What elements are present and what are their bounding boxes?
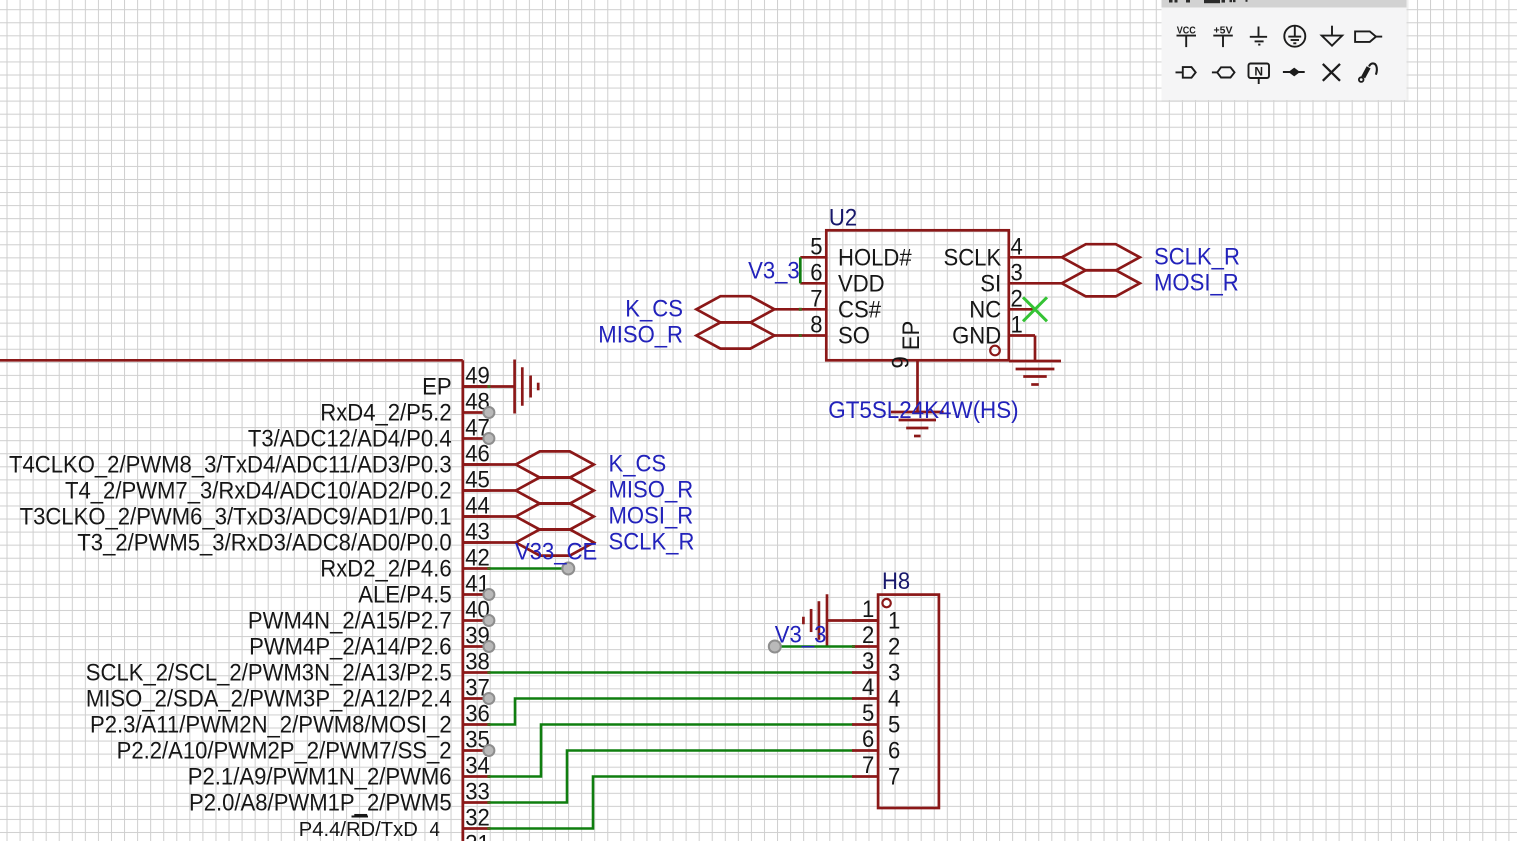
svg-text:MISO_R: MISO_R [598, 322, 683, 349]
svg-text:SCLK_R: SCLK_R [1154, 243, 1240, 270]
svg-text:6: 6 [862, 726, 874, 753]
svg-text:RxD4_2/P5.2: RxD4_2/P5.2 [320, 400, 451, 427]
svg-text:4: 4 [862, 674, 874, 701]
svg-text:HOLD#: HOLD# [838, 245, 912, 272]
svg-text:N: N [1254, 65, 1263, 79]
svg-text:36: 36 [465, 701, 490, 728]
svg-text:33: 33 [465, 779, 490, 806]
svg-text:ALE/P4.5: ALE/P4.5 [358, 582, 451, 609]
svg-text:9: 9 [888, 356, 915, 368]
svg-text:RxD2_2/P4.6: RxD2_2/P4.6 [320, 556, 451, 583]
svg-text:T4CLKO_2/PWM8_3/TxD4/ADC11/AD3: T4CLKO_2/PWM8_3/TxD4/ADC11/AD3/P0.3 [9, 452, 452, 479]
svg-text:P2.0/A8/PWM1P_2/PWM5: P2.0/A8/PWM1P_2/PWM5 [189, 790, 452, 817]
svg-text:T3CLKO_2/PWM6_3/TxD3/ADC9/AD1/: T3CLKO_2/PWM6_3/TxD3/ADC9/AD1/P0.1 [20, 504, 452, 531]
svg-text:6: 6 [888, 738, 900, 765]
svg-text:4: 4 [888, 686, 900, 713]
svg-text:2: 2 [888, 634, 900, 661]
svg-text:SO: SO [838, 323, 870, 350]
svg-text:8: 8 [810, 312, 822, 339]
svg-text:PWM4P_2/A14/P2.6: PWM4P_2/A14/P2.6 [249, 634, 452, 661]
svg-text:SI: SI [980, 271, 1001, 298]
svg-text:MISO_R: MISO_R [609, 477, 694, 504]
svg-text:2: 2 [1011, 285, 1023, 312]
svg-text:34: 34 [465, 753, 490, 780]
svg-text:K_CS: K_CS [609, 451, 667, 478]
svg-text:T3/ADC12/AD4/P0.4: T3/ADC12/AD4/P0.4 [248, 426, 452, 453]
svg-text:1: 1 [862, 596, 874, 623]
svg-text:SCLK_2/SCL_2/PWM3N_2/A13/P2.5: SCLK_2/SCL_2/PWM3N_2/A13/P2.5 [86, 660, 452, 687]
svg-text:38: 38 [465, 649, 490, 676]
svg-text:1: 1 [1011, 312, 1023, 339]
svg-text:V3_3: V3_3 [775, 622, 827, 649]
svg-text:MOSI_R: MOSI_R [1154, 269, 1239, 296]
svg-text:7: 7 [862, 752, 874, 779]
svg-text:5: 5 [862, 700, 874, 727]
svg-text:CS#: CS# [838, 297, 882, 324]
svg-text:GT5SL24K4W(HS): GT5SL24K4W(HS) [828, 397, 1018, 424]
svg-text:T4_2/PWM7_3/RxD4/ADC10/AD2/P0.: T4_2/PWM7_3/RxD4/ADC10/AD2/P0.2 [65, 478, 452, 505]
svg-text:3: 3 [862, 648, 874, 675]
svg-text:4: 4 [1011, 233, 1023, 260]
svg-text:NC: NC [969, 297, 1001, 324]
svg-text:P4.4/RD/TxD: P4.4/RD/TxD [299, 819, 418, 841]
svg-text:42: 42 [465, 545, 490, 572]
svg-text:VDD: VDD [838, 271, 885, 298]
svg-text:6: 6 [810, 259, 822, 286]
svg-text:V3_3: V3_3 [748, 258, 800, 285]
svg-text:4: 4 [430, 819, 440, 841]
svg-text:3: 3 [888, 660, 900, 687]
svg-text:5: 5 [810, 233, 822, 260]
svg-text:7: 7 [888, 764, 900, 791]
svg-text:P2.1/A9/PWM1N_2/PWM6: P2.1/A9/PWM1N_2/PWM6 [188, 764, 452, 791]
svg-text:V33_CE: V33_CE [515, 539, 597, 566]
svg-text:U2: U2 [829, 205, 857, 232]
svg-text:K_CS: K_CS [625, 295, 683, 322]
svg-text:PWM4N_2/A15/P2.7: PWM4N_2/A15/P2.7 [248, 608, 452, 635]
svg-text:H8: H8 [882, 568, 910, 595]
svg-text:T3_2/PWM5_3/RxD3/ADC8/AD0/P0.0: T3_2/PWM5_3/RxD3/ADC8/AD0/P0.0 [77, 530, 451, 557]
svg-text:7: 7 [810, 285, 822, 312]
svg-text:32: 32 [465, 805, 490, 832]
svg-text:P2.3/A11/PWM2N_2/PWM8/MOSI_2: P2.3/A11/PWM2N_2/PWM8/MOSI_2 [90, 712, 452, 739]
svg-text:EP: EP [422, 374, 452, 401]
svg-text:MOSI_R: MOSI_R [609, 503, 694, 530]
svg-text:P2.2/A10/PWM2P_2/PWM7/SS_2: P2.2/A10/PWM2P_2/PWM7/SS_2 [117, 738, 452, 765]
svg-text:2: 2 [862, 622, 874, 649]
svg-text:SCLK: SCLK [944, 245, 1002, 272]
svg-text:MISO_2/SDA_2/PWM3P_2/A12/P2.4: MISO_2/SDA_2/PWM3P_2/A12/P2.4 [86, 686, 452, 713]
svg-text:5: 5 [888, 712, 900, 739]
svg-text:SCLK_R: SCLK_R [609, 529, 695, 556]
svg-text:EP: EP [898, 321, 925, 351]
svg-text:3: 3 [1011, 259, 1023, 286]
svg-text:1: 1 [888, 608, 900, 635]
svg-text:31: 31 [465, 831, 490, 841]
